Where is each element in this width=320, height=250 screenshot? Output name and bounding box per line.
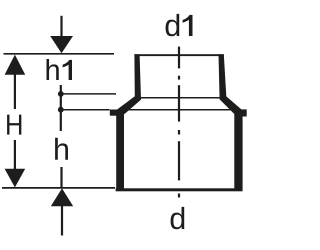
h arrow stem below xyxy=(61,205,63,236)
h arrowhead (up, below bottom line) xyxy=(51,188,73,206)
H label xyxy=(7,115,21,135)
socket internal line A (insertion depth) xyxy=(139,97,222,99)
dimension reference line top (h1/H datum) xyxy=(4,53,115,55)
h1 arrow stem (top, pointing down) xyxy=(60,16,62,38)
center line dot 2 xyxy=(178,130,180,135)
fitting left bead tab xyxy=(110,110,120,116)
center line dot 1 xyxy=(178,76,180,80)
center line dash segment 2 xyxy=(178,85,180,121)
leader line upper dot xyxy=(62,93,116,95)
h1 arrowhead (down) xyxy=(50,36,73,53)
leader line lower dot xyxy=(62,109,110,111)
H arrowhead top (up) xyxy=(5,55,26,75)
h1/h leader stem with dots xyxy=(60,85,62,131)
H dimension line lower segment xyxy=(14,140,16,171)
d1 label xyxy=(166,14,193,36)
H arrowhead bottom (down) xyxy=(5,169,26,188)
fitting left chamfer xyxy=(116,96,141,114)
leader dot lower (h depth level) xyxy=(58,107,64,113)
dimension reference line bottom (H/h datum) xyxy=(2,187,115,189)
H dimension line upper segment xyxy=(14,72,16,109)
fitting right chamfer xyxy=(220,96,243,114)
fitting right bead tab xyxy=(240,109,247,116)
fitting upper right wall xyxy=(219,54,227,99)
socket internal line B (shoulder level) xyxy=(124,109,234,111)
fitting top edge xyxy=(134,54,223,56)
fitting upper left wall xyxy=(134,54,141,99)
fitting lower left wall xyxy=(116,110,124,191)
fitting lower right wall xyxy=(234,110,242,191)
center line dash segment 3 xyxy=(178,141,180,180)
leader dot upper (h1 depth level) xyxy=(58,91,64,97)
center line dash segment 1 xyxy=(178,47,180,69)
center line end dot below bottom edge xyxy=(178,194,180,198)
h label xyxy=(55,138,68,160)
h1 label xyxy=(47,59,72,80)
h stem above bottom line xyxy=(60,167,62,187)
d label xyxy=(171,207,185,229)
fitting bottom edge xyxy=(116,188,243,191)
